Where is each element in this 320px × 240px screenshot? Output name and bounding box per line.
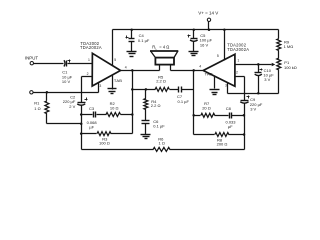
svg-text:4: 4 bbox=[199, 65, 201, 69]
wire pin 2 U1 to C2 bbox=[82, 77, 93, 103]
svg-text:4: 4 bbox=[125, 66, 127, 70]
resistor R1 1 ohm bbox=[34, 93, 81, 124]
svg-text:2: 2 bbox=[236, 71, 238, 75]
resistor R8 200 ohm bbox=[194, 133, 245, 147]
svg-text:10 Ω: 10 Ω bbox=[110, 106, 119, 111]
svg-text:1: 1 bbox=[237, 58, 239, 62]
capacitor C6 0.1 uF bbox=[142, 119, 166, 135]
svg-text:200 Ω: 200 Ω bbox=[217, 142, 228, 147]
capacitor C9 220 uF 3 V bbox=[240, 96, 263, 150]
resistor R6 1 ohm bbox=[153, 136, 170, 151]
potentiometer P1 100 kohm bbox=[272, 58, 297, 93]
svg-text:20 Ω: 20 Ω bbox=[202, 106, 211, 111]
svg-text:1: 1 bbox=[88, 58, 90, 62]
svg-text:0.1 µF: 0.1 µF bbox=[138, 38, 150, 43]
capacitor C7 0.1 uF bbox=[177, 87, 194, 104]
svg-text:1 Ω: 1 Ω bbox=[34, 106, 40, 111]
svg-text:100 kΩ: 100 kΩ bbox=[284, 65, 297, 70]
speaker RL = 4 ohm bbox=[150, 45, 178, 71]
TAB U2 bbox=[205, 71, 215, 88]
svg-text:3: 3 bbox=[225, 84, 227, 88]
svg-text:0.1 µF: 0.1 µF bbox=[153, 123, 165, 128]
op-amp U2 TDA2002 bbox=[203, 43, 249, 86]
ground under C6 bbox=[141, 135, 151, 139]
svg-text:2.2 Ω: 2.2 Ω bbox=[151, 103, 161, 108]
wire C2 to ground rail bbox=[80, 106, 83, 150]
wire ground rail bbox=[82, 149, 245, 151]
node R4 junction bbox=[145, 88, 148, 91]
pin 5 U2 bbox=[217, 28, 226, 60]
svg-text:2 V: 2 V bbox=[69, 104, 75, 109]
ground under C4 bbox=[127, 52, 137, 57]
pin 1 U2 bbox=[235, 58, 272, 64]
svg-text:100 Ω: 100 Ω bbox=[99, 141, 110, 146]
svg-text:µF: µF bbox=[228, 124, 233, 129]
terminal V+ = 14 V bbox=[198, 10, 218, 31]
svg-text:10 V: 10 V bbox=[62, 79, 71, 84]
svg-text:3 V: 3 V bbox=[264, 77, 270, 82]
svg-text:16 V: 16 V bbox=[200, 43, 209, 48]
capacitor C5 100 uF 16 V bbox=[188, 28, 213, 51]
pin 3 U1 bbox=[99, 83, 102, 93]
resistor R5 2.2 ohm bbox=[133, 75, 179, 92]
capacitor C4 0.1 uF bbox=[126, 28, 150, 51]
svg-text:2.2 Ω: 2.2 Ω bbox=[156, 79, 166, 84]
wire output U1 node bbox=[121, 69, 160, 133]
pin 4 U1 bbox=[125, 66, 127, 70]
svg-text:TAB: TAB bbox=[205, 71, 213, 76]
pin 2 U1 bbox=[87, 72, 89, 76]
wire output U2 node bbox=[171, 69, 203, 134]
svg-text:5: 5 bbox=[114, 58, 116, 62]
wire V+ supply rail bbox=[113, 29, 279, 31]
resistor R9 1 Mohm bbox=[277, 30, 293, 59]
svg-text:V+ = 14 V: V+ = 14 V bbox=[198, 10, 218, 15]
op-amp U1 TDA2002 bbox=[80, 41, 121, 86]
svg-text:1 Ω: 1 Ω bbox=[159, 141, 165, 146]
capacitor C1 10 uF 10 V bbox=[62, 60, 93, 85]
svg-text:TDA2002A: TDA2002A bbox=[80, 45, 102, 50]
svg-text:= 4 Ω: = 4 Ω bbox=[159, 45, 169, 50]
svg-text:INPUT: INPUT bbox=[25, 56, 38, 61]
svg-text:3: 3 bbox=[99, 84, 101, 88]
capacitor C10 10 uF 3 V bbox=[255, 63, 275, 94]
resistor R4 2.2 ohm bbox=[144, 90, 161, 121]
ground under TAB U1 bbox=[108, 89, 117, 94]
capacitor C8 0.033 uF bbox=[226, 106, 244, 129]
terminal INPUT return bbox=[30, 91, 99, 94]
svg-text:µF: µF bbox=[89, 125, 94, 130]
resistor R7 20 ohm bbox=[194, 101, 229, 117]
capacitor C2 220 uF 2 V bbox=[63, 95, 88, 110]
capacitor C3 0.068 uF bbox=[82, 106, 107, 130]
svg-text:3 V: 3 V bbox=[250, 107, 256, 112]
svg-text:2: 2 bbox=[87, 72, 89, 76]
svg-text:C3: C3 bbox=[89, 106, 95, 111]
pin 4 U2 bbox=[199, 65, 201, 69]
pin 2 U2 bbox=[235, 71, 245, 101]
resistor R2 10 ohm bbox=[106, 101, 133, 116]
svg-text:TAB: TAB bbox=[114, 78, 122, 83]
svg-text:TDA2002A: TDA2002A bbox=[227, 47, 249, 52]
ground under C5 bbox=[189, 52, 199, 56]
svg-text:1 MΩ: 1 MΩ bbox=[284, 44, 294, 49]
pin 1 U1 bbox=[88, 58, 90, 62]
svg-text:5: 5 bbox=[217, 54, 219, 58]
resistor R3 100 ohm bbox=[82, 132, 133, 146]
terminal INPUT hot bbox=[25, 56, 64, 65]
TAB U1 bbox=[113, 76, 123, 90]
pin 3 U2 bbox=[225, 83, 228, 94]
wire pin3/P1 bottom line bbox=[228, 93, 279, 95]
pin 5 U1 bbox=[113, 30, 117, 66]
ground under TAB U2 bbox=[210, 90, 220, 95]
svg-text:C8: C8 bbox=[226, 106, 232, 111]
svg-text:0.1 µF: 0.1 µF bbox=[178, 99, 190, 104]
